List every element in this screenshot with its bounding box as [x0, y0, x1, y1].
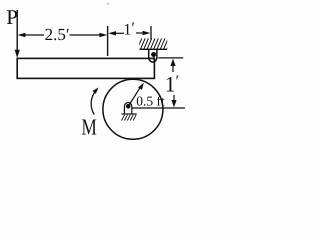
svg-text:P: P: [6, 5, 18, 29]
beam: [17, 58, 154, 78]
extension line between dims: [107, 26, 109, 56]
pin support dome: [124, 103, 131, 115]
dimension line 2.5 ft: [18, 33, 108, 37]
hatched ceiling support: [137, 38, 171, 49]
svg-text:2.5′: 2.5′: [45, 25, 70, 44]
pulley circle: [103, 79, 163, 139]
support base line: [122, 113, 137, 115]
svg-text:1′: 1′: [123, 20, 134, 38]
pin stem to beam: [153, 54, 155, 60]
extension line right: [150, 26, 152, 40]
svg-text:M: M: [82, 115, 97, 140]
radius line 0.5 ft: [129, 83, 144, 106]
bottom reference line: [132, 107, 185, 109]
down arrow: [171, 95, 176, 107]
dimension line 1 ft (horizontal): [108, 31, 150, 36]
pin at link: [151, 52, 156, 57]
tiny scan speck: [107, 3, 109, 5]
moment arc M: [91, 88, 98, 115]
up arrow: [170, 59, 175, 72]
link / shackle: [149, 49, 157, 62]
force P arrow: [15, 10, 20, 58]
support hatching: [122, 115, 137, 121]
vertical dim 1 ft : top reference line: [158, 57, 183, 59]
svg-text:0.5 ft: 0.5 ft: [136, 94, 165, 109]
pin at pulley center: [126, 104, 131, 109]
